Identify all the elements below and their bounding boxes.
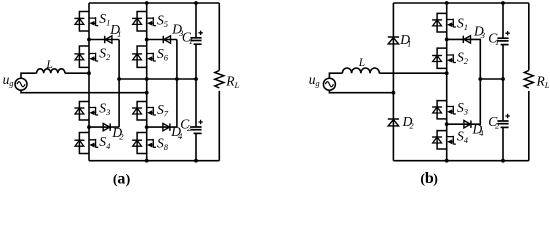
- svg-text:1: 1: [464, 22, 468, 32]
- svg-text:2: 2: [464, 56, 469, 66]
- label D3 (b): [473, 24, 485, 41]
- wire: D4 branch (b): [447, 79, 481, 124]
- switch S1 (MOSFET with antiparallel diode): [74, 12, 98, 32]
- switch S2 (MOSFET with antiparallel diode): [74, 46, 98, 67]
- wire: top DC rail (a): [89, 2, 219, 4]
- label RL (a): [225, 74, 239, 91]
- label S4b: [457, 128, 469, 145]
- label S2b: [457, 50, 469, 67]
- label C1 (a): [182, 30, 193, 47]
- wire: source bottom to diode leg (b): [329, 90, 393, 93]
- label ug (a): [3, 72, 14, 88]
- label S4: [99, 134, 111, 151]
- svg-text:4: 4: [106, 141, 111, 151]
- node: cap branch bottom (a): [194, 159, 198, 163]
- node: phase / L connection (a): [87, 71, 91, 75]
- diode D2 (b): [388, 119, 399, 126]
- inductor L (a): [37, 69, 65, 73]
- label C2 (a): [180, 116, 192, 133]
- capacitor C1 (b): [497, 31, 509, 45]
- switch S8 (MOSFET with antiparallel diode): [132, 133, 156, 154]
- node: S5-S6 midpoint (a): [145, 38, 149, 42]
- label L (a): [45, 59, 52, 71]
- svg-text:8: 8: [164, 142, 169, 152]
- node: cap branch bottom (b): [501, 159, 505, 163]
- wire: inductor to phase node (a): [65, 72, 89, 74]
- node: D3D4 vertical to midpoint (b): [478, 77, 482, 81]
- switch S4b (MOSFET with antiparallel diode): [432, 131, 456, 149]
- label S8: [157, 136, 169, 153]
- svg-text:7: 7: [164, 109, 169, 119]
- switch S6 (MOSFET with antiparallel diode): [132, 46, 156, 67]
- capacitor C2 (a): [190, 120, 202, 134]
- svg-text:L: L: [234, 80, 240, 90]
- node: D-vertical to mid rail (a): [117, 77, 121, 81]
- switch S7 (MOSFET with antiparallel diode): [132, 102, 156, 121]
- label S6: [157, 46, 169, 63]
- label S2: [99, 46, 111, 63]
- wire: D4 branch (a): [147, 126, 177, 128]
- svg-text:1: 1: [189, 36, 193, 46]
- node: leg2 mid rail junction (a): [145, 77, 149, 81]
- node: S3-S4 midpoint (a): [87, 125, 91, 129]
- wire: midpoint rail (a): [119, 78, 196, 80]
- svg-text:): ): [433, 172, 438, 187]
- diode D2: [103, 123, 110, 130]
- diode D3 (b): [463, 36, 470, 43]
- label S1: [99, 11, 110, 28]
- svg-text:4: 4: [479, 128, 484, 138]
- wire: midpoint link (b): [480, 78, 503, 80]
- label D2 (b): [402, 114, 415, 131]
- label S7: [157, 102, 169, 119]
- svg-text:5: 5: [164, 19, 168, 29]
- node: D3D4-vertical to mid rail (a): [175, 77, 179, 81]
- wire: D3 branch (b): [447, 39, 481, 79]
- label S5: [157, 12, 168, 29]
- diode leg vertical D1 D2 (b): [392, 3, 394, 161]
- svg-text:L: L: [45, 59, 52, 71]
- svg-text:L: L: [358, 57, 365, 69]
- label C2 (b): [488, 114, 500, 131]
- wire: D1-D2 junction vertical (a): [118, 40, 120, 128]
- node: leg2 top rail junction (a): [145, 1, 149, 5]
- node: neutral rail end (a): [145, 91, 149, 95]
- label D2: [111, 125, 124, 142]
- wire: inductor to phase node (b): [379, 72, 446, 74]
- svg-text:6: 6: [164, 53, 169, 63]
- node: midpoint to cap branch (b): [501, 77, 505, 81]
- capacitor branch vertical (b): [502, 3, 504, 161]
- wire: bottom DC rail (b): [393, 160, 528, 162]
- switch leg conductor (b): [446, 3, 448, 161]
- capacitor C1 (a): [190, 31, 202, 45]
- label RL (b): [536, 73, 550, 90]
- leg1 conductor (a) S1..S4 branch: [88, 3, 90, 161]
- diode D1 (b): [388, 37, 399, 44]
- node: mid rail to capacitor branch (a): [194, 77, 198, 81]
- switch S2b (MOSFET with antiparallel diode): [432, 48, 456, 68]
- label S3: [99, 101, 110, 118]
- label D1: [109, 22, 121, 39]
- svg-text:3: 3: [463, 107, 468, 117]
- wire: source top to inductor (a): [21, 73, 37, 78]
- label C1 (b): [488, 30, 499, 47]
- svg-text:g: g: [315, 78, 319, 88]
- svg-text:2: 2: [106, 52, 111, 62]
- label ug (b): [309, 72, 320, 88]
- svg-text:): ): [126, 172, 131, 187]
- node: leg top rail junction (b): [445, 1, 449, 5]
- AC source ug (a): [15, 78, 27, 90]
- switch S3b (MOSFET with antiparallel diode): [432, 101, 456, 119]
- wire: top DC rail (b): [393, 2, 528, 4]
- capacitor C2 (b): [497, 114, 509, 128]
- diode D4 (b): [464, 121, 471, 128]
- node: cap branch top (b): [501, 1, 505, 5]
- svg-text:1: 1: [117, 29, 121, 39]
- diode D3: [163, 36, 170, 43]
- resistor RL (a): [215, 70, 224, 88]
- wire: D2 branch (a): [89, 126, 119, 128]
- wire: D3-D4 junction vertical (a): [176, 40, 178, 128]
- svg-text:4: 4: [464, 135, 469, 145]
- svg-text:3: 3: [480, 30, 485, 40]
- node: S7-S8 midpoint (a): [145, 125, 149, 129]
- label S3b: [457, 100, 468, 117]
- svg-text:a: a: [117, 170, 125, 187]
- switch S3 (MOSFET with antiparallel diode): [74, 102, 98, 121]
- wire: source top to inductor (b): [329, 73, 342, 78]
- svg-text:3: 3: [105, 107, 110, 117]
- node: neutral to diode leg (b): [392, 91, 396, 95]
- wire: source bottom / neutral rail (a): [21, 90, 147, 93]
- svg-text:1: 1: [407, 38, 411, 48]
- label D1 (b): [399, 32, 411, 49]
- label D3: [171, 21, 183, 38]
- svg-text:2: 2: [409, 120, 414, 130]
- inductor L (b): [342, 68, 379, 73]
- node: leg2 bottom rail junction (a): [145, 159, 149, 163]
- wire: bottom DC rail (a): [89, 160, 219, 162]
- node: S3-S4 midpoint (b): [445, 122, 449, 126]
- node: cap branch top (a): [194, 1, 198, 5]
- switch S1b (MOSFET with antiparallel diode): [432, 13, 456, 32]
- svg-text:L: L: [544, 80, 550, 90]
- label D4 (b): [472, 122, 485, 139]
- node: S1-S2 midpoint (b): [445, 38, 449, 42]
- resistor RL (b): [524, 70, 533, 88]
- switch S5 (MOSFET with antiparallel diode): [132, 12, 156, 32]
- node: phase connection (b): [445, 71, 449, 75]
- load branch (a): [218, 3, 220, 70]
- svg-text:g: g: [9, 78, 13, 88]
- leg2 conductor (a) S5..S8 branch: [146, 3, 148, 161]
- wire: D1 branch (a): [89, 39, 119, 41]
- switch S4 (MOSFET with antiparallel diode): [74, 133, 98, 154]
- svg-text:2: 2: [119, 132, 124, 142]
- diode D1: [105, 36, 112, 43]
- wire: D3 branch (a): [147, 39, 177, 41]
- diode D4: [163, 123, 170, 130]
- label L (b): [358, 57, 365, 69]
- node: S1-S2 midpoint (a): [87, 38, 91, 42]
- load branch (b): [528, 3, 530, 70]
- label D4: [170, 124, 183, 141]
- svg-text:1: 1: [495, 37, 499, 47]
- capacitor branch vertical (a): [195, 3, 197, 161]
- AC source ug (b): [323, 78, 335, 90]
- node: leg bottom rail junction (b): [445, 159, 449, 163]
- label S1b: [457, 16, 468, 33]
